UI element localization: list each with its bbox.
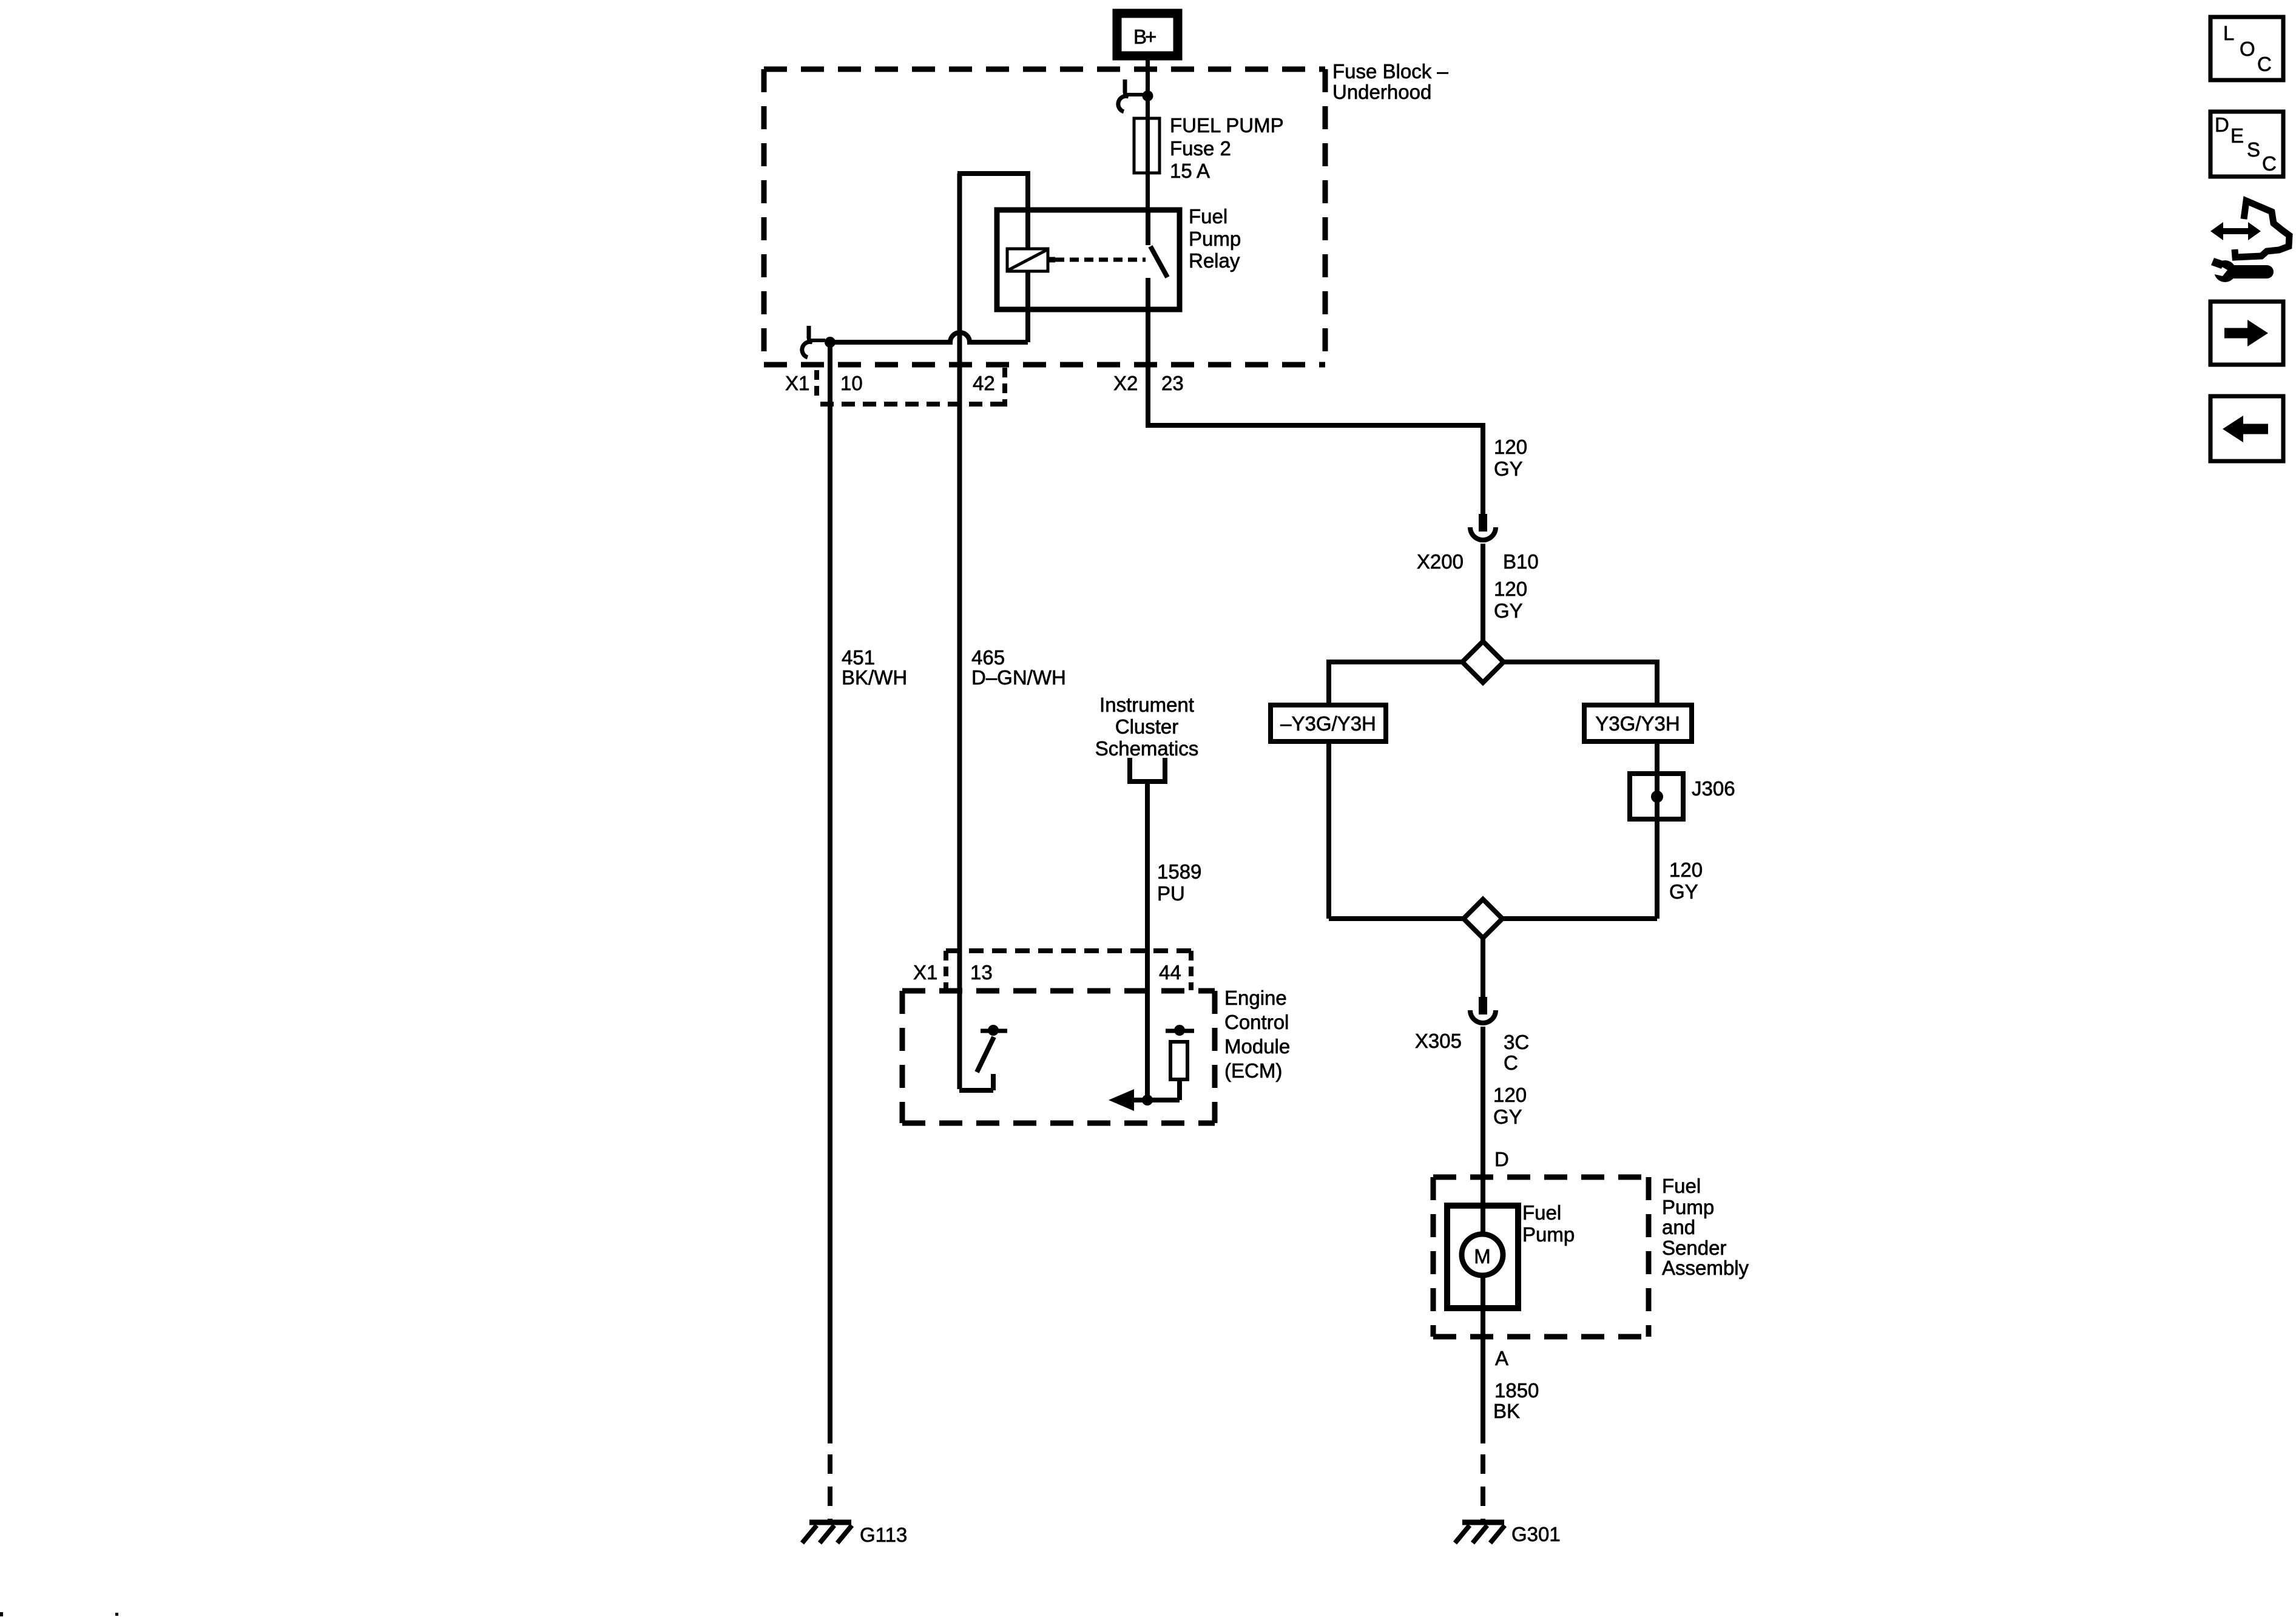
label 451 BK/WH [842, 646, 907, 689]
svg-text:D: D [1494, 1148, 1509, 1170]
svg-text:Cluster: Cluster [1115, 715, 1179, 738]
svg-text:Fuel: Fuel [1522, 1201, 1561, 1224]
wire 1589 PU from bracket to ECM pin 44 [1145, 781, 1150, 1100]
label Fuel Pump and Sender Assembly [1662, 1175, 1749, 1279]
relay switch [1148, 210, 1167, 309]
fuel pump and sender assembly dashed box [1433, 1177, 1649, 1337]
off-page bracket under Instrument Cluster [1130, 758, 1165, 781]
wire X200 to splice diamond [1481, 544, 1485, 643]
svg-text:D–GN/WH: D–GN/WH [971, 666, 1066, 689]
wire lower diamond to X305 [1481, 938, 1485, 997]
svg-text:Y3G/Y3H: Y3G/Y3H [1595, 712, 1680, 735]
label 465 D-GN/WH [971, 646, 1066, 689]
svg-text:120: 120 [1669, 859, 1703, 881]
wire 465 (coil feed loop down to ECM pin 13) [957, 174, 962, 1089]
page artifact dots bottom left [0, 1612, 118, 1616]
fuel pump box [1447, 1206, 1518, 1308]
relay coil [1007, 249, 1055, 271]
svg-text:D: D [2215, 113, 2229, 136]
svg-text:Fuel: Fuel [1189, 205, 1227, 228]
fuel pump motor M [1462, 1234, 1503, 1275]
svg-text:G301: G301 [1511, 1523, 1561, 1545]
svg-text:44: 44 [1159, 961, 1181, 984]
svg-text:G113: G113 [860, 1524, 907, 1546]
label 1589 PU [1157, 860, 1201, 905]
box -Y3G/Y3H [1271, 705, 1386, 741]
ground G301 [1455, 1522, 1561, 1545]
connector X305 3C C [1415, 997, 1529, 1074]
svg-text:13: 13 [970, 961, 993, 984]
wire B+ to fuse [1146, 56, 1150, 211]
svg-text:Control: Control [1224, 1011, 1289, 1033]
svg-text:–Y3G/Y3H: –Y3G/Y3H [1280, 712, 1376, 735]
svg-text:X1: X1 [785, 372, 809, 394]
svg-text:Instrument: Instrument [1099, 694, 1194, 716]
svg-text:BK/WH: BK/WH [842, 666, 907, 689]
svg-text:M: M [1474, 1245, 1491, 1268]
wire loop top of relay coil [957, 171, 1028, 249]
wire Y3G/Y3H box to splice J306 [1655, 741, 1660, 774]
svg-text:1850: 1850 [1494, 1379, 1539, 1402]
dashed sub-box around pins 10 and 42 [820, 368, 1007, 407]
svg-text:15 A: 15 A [1170, 160, 1210, 182]
svg-text:GY: GY [1669, 880, 1698, 903]
fuse block underhood dashed box [764, 69, 1325, 365]
svg-text:BK: BK [1493, 1400, 1520, 1422]
wire coil bottom [1025, 271, 1030, 342]
svg-text:Pump: Pump [1189, 228, 1241, 250]
ECM connector row X1 pins 13 44 [913, 951, 1191, 990]
svg-text:GY: GY [1494, 599, 1523, 622]
label 1850 BK [1493, 1379, 1539, 1422]
label 120 GY (fourth) [1493, 1084, 1527, 1128]
label 120 GY (third) [1669, 859, 1703, 903]
svg-text:120: 120 [1494, 578, 1527, 600]
svg-text:C: C [2262, 152, 2277, 175]
wire diamond to Y3G/Y3H box [1504, 660, 1657, 705]
svg-text:42: 42 [973, 372, 995, 394]
svg-text:C: C [1504, 1052, 1518, 1074]
connector row X1 pins 10 42 and X2 pin 23 [785, 370, 1184, 396]
wire J306 to lower diamond [1502, 819, 1657, 919]
svg-text:and: and [1662, 1216, 1695, 1238]
svg-text:S: S [2247, 138, 2260, 161]
svg-text:465: 465 [971, 646, 1005, 669]
svg-text:Underhood: Underhood [1332, 81, 1431, 103]
label 120 GY (second) [1494, 578, 1527, 622]
label Fuel Pump (motor) [1522, 1201, 1575, 1246]
svg-text:120: 120 [1494, 436, 1527, 458]
sidebar icon LOC [2210, 17, 2283, 80]
svg-text:3C: 3C [1504, 1031, 1529, 1053]
splice diamond (lower) [1464, 899, 1502, 938]
wire relay switch to X2 pin 23 [1146, 309, 1150, 425]
svg-text:451: 451 [842, 646, 875, 669]
relay box Fuel Pump Relay [997, 210, 1180, 309]
ECM internal resistor at pin 44 [1109, 1025, 1194, 1111]
wire 1850 BK dashed to G301 [1481, 1454, 1485, 1522]
svg-text:10: 10 [840, 372, 863, 394]
relay control dashed line [1055, 258, 1146, 262]
svg-text:23: 23 [1161, 372, 1184, 394]
label Fuel Pump Relay [1189, 205, 1241, 272]
label 120 GY (top) [1494, 436, 1527, 480]
svg-text:B10: B10 [1503, 550, 1539, 573]
engine control module dashed box [902, 991, 1215, 1123]
svg-text:Relay: Relay [1189, 249, 1240, 272]
svg-text:O: O [2240, 38, 2255, 60]
node junction below B+ with clip symbol [1118, 79, 1153, 112]
label Instrument Cluster Schematics [1095, 694, 1199, 760]
svg-text:Sender: Sender [1662, 1237, 1726, 1259]
box Y3G/Y3H [1584, 705, 1692, 741]
sidebar icon DESC [2210, 112, 2283, 177]
wire -Y3G/Y3H box to lower diamond [1329, 741, 1464, 919]
svg-text:GY: GY [1493, 1106, 1522, 1128]
svg-text:Engine: Engine [1224, 987, 1287, 1009]
sidebar icon arrow left [2210, 396, 2283, 461]
svg-text:X1: X1 [913, 961, 937, 984]
svg-text:FUEL PUMP: FUEL PUMP [1170, 114, 1284, 137]
connector X200 B10 [1417, 514, 1539, 573]
svg-text:Fuse 2: Fuse 2 [1170, 137, 1231, 160]
svg-text:Pump: Pump [1522, 1223, 1575, 1246]
svg-text:Fuel: Fuel [1662, 1175, 1701, 1197]
svg-text:J306: J306 [1692, 777, 1735, 800]
svg-text:C: C [2257, 53, 2272, 75]
svg-text:X305: X305 [1415, 1030, 1462, 1052]
wire 451 BK/WH down to G113 [828, 342, 832, 1522]
fuse FUEL PUMP Fuse 2 15 A [1134, 114, 1284, 182]
svg-text:B+: B+ [1133, 25, 1156, 48]
svg-text:(ECM): (ECM) [1224, 1059, 1282, 1082]
sidebar icon arrow right [2210, 302, 2283, 365]
ECM internal switch at pin 13 [959, 1025, 1007, 1090]
wire X305 to fuel pump [1481, 1027, 1485, 1443]
svg-text:Schematics: Schematics [1095, 737, 1199, 760]
ground G113 [802, 1522, 907, 1546]
svg-text:GY: GY [1494, 457, 1523, 480]
sidebar icon wrench with arrows [2209, 201, 2289, 282]
label Engine Control Module (ECM) [1224, 987, 1290, 1082]
svg-text:X2: X2 [1113, 372, 1138, 394]
wire diamond to -Y3G/Y3H box [1329, 660, 1462, 705]
battery terminal B+ [1117, 13, 1178, 56]
svg-text:Fuse Block –: Fuse Block – [1332, 60, 1448, 83]
splice J306 [1630, 774, 1735, 819]
label Fuse Block - Underhood [1332, 60, 1448, 103]
splice diamond (upper) [1462, 641, 1504, 683]
wire coil return (horizontal with hop over wire 465) [830, 333, 1028, 342]
svg-text:L: L [2223, 22, 2234, 44]
svg-text:PU: PU [1157, 882, 1185, 905]
node junction at pin 10 with clip symbol [802, 326, 836, 357]
svg-text:X200: X200 [1417, 550, 1464, 573]
svg-text:1589: 1589 [1157, 860, 1201, 883]
svg-text:120: 120 [1493, 1084, 1527, 1106]
svg-text:Assembly: Assembly [1662, 1257, 1749, 1279]
svg-text:E: E [2230, 124, 2244, 147]
svg-text:Module: Module [1224, 1035, 1290, 1058]
svg-text:Pump: Pump [1662, 1196, 1714, 1218]
svg-text:A: A [1495, 1347, 1508, 1369]
wire X2 pin 23 to X200 [1146, 423, 1483, 514]
